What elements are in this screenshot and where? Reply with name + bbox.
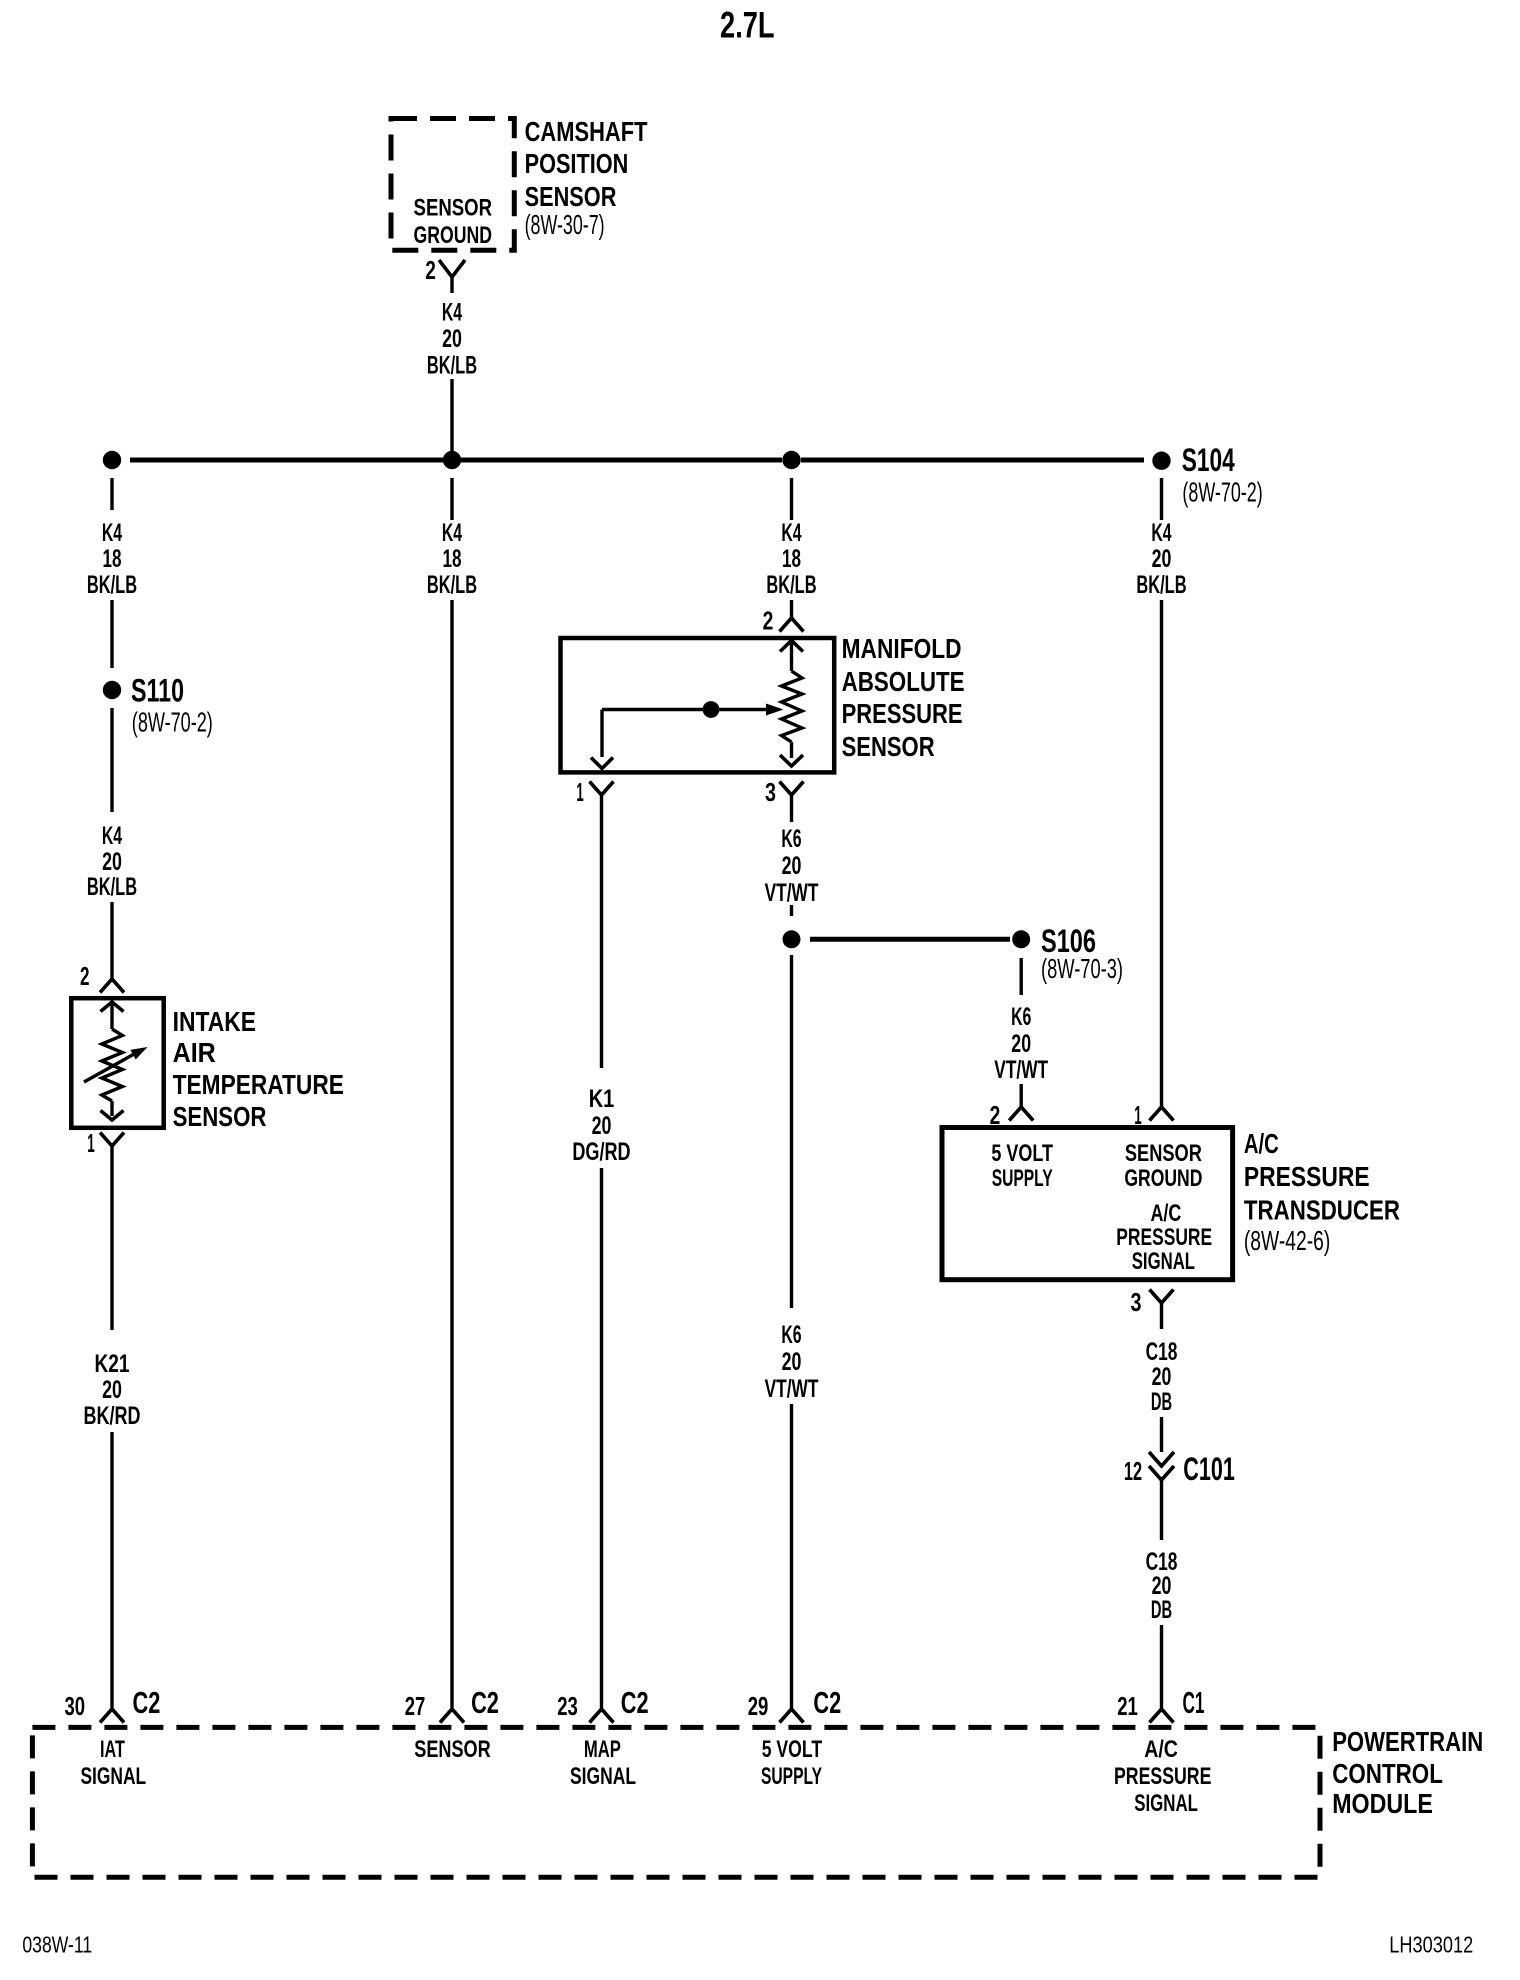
wire K21 from IAT pin 1 down — [110, 1162, 113, 1330]
wire to IAT pin 2 — [110, 902, 113, 979]
bus wire of splice S104 - segment 1 — [130, 458, 443, 463]
svg-text:K4: K4 — [1151, 520, 1171, 547]
svg-text:VT/WT: VT/WT — [765, 880, 819, 907]
junction dot S110 — [103, 681, 121, 699]
svg-text:30: 30 — [65, 1691, 86, 1721]
bus wire segment 2 — [461, 458, 782, 463]
svg-text:TEMPERATURE: TEMPERATURE — [173, 1069, 344, 1100]
svg-text:C18: C18 — [1146, 1339, 1178, 1366]
horizontal wire to splice S106 — [810, 937, 1010, 942]
wire below bus at x=112 — [110, 478, 113, 510]
svg-text:20: 20 — [1152, 546, 1172, 573]
svg-text:PRESSURE: PRESSURE — [842, 698, 963, 729]
svg-text:INTAKE: INTAKE — [173, 1006, 256, 1037]
svg-text:23: 23 — [557, 1691, 578, 1721]
svg-text:VT/WT: VT/WT — [994, 1057, 1048, 1084]
svg-text:SENSOR: SENSOR — [414, 196, 493, 222]
connector at A/C transducer pin 3 — [1150, 1290, 1174, 1304]
wire below bus at x=1161.5 — [1160, 478, 1163, 520]
svg-text:C2: C2 — [471, 1685, 499, 1720]
svg-text:C18: C18 — [1146, 1549, 1178, 1576]
svg-text:PRESSURE: PRESSURE — [1244, 1161, 1370, 1192]
wire segment to bus — [450, 379, 453, 460]
connector at MAP pin 2 — [780, 618, 804, 632]
svg-text:BK/LB: BK/LB — [87, 874, 137, 901]
junction dot on wiper — [703, 701, 720, 718]
svg-text:SIGNAL: SIGNAL — [570, 1764, 636, 1790]
svg-text:BK/LB: BK/LB — [427, 353, 477, 380]
svg-text:BK/RD: BK/RD — [84, 1403, 141, 1430]
connector at PCM pin 29 — [780, 1709, 804, 1723]
svg-text:DG/RD: DG/RD — [572, 1139, 630, 1166]
svg-text:20: 20 — [102, 1377, 122, 1404]
svg-text:20: 20 — [782, 853, 802, 880]
bus wire segment 3 — [801, 458, 1144, 463]
manifold absolute pressure sensor box — [561, 638, 835, 772]
svg-text:038W-11: 038W-11 — [22, 1932, 92, 1958]
svg-text:20: 20 — [442, 326, 462, 353]
svg-text:PRESSURE: PRESSURE — [1116, 1225, 1212, 1251]
svg-text:3: 3 — [1131, 1287, 1142, 1317]
wire to PCM pin 21 — [1160, 1625, 1163, 1709]
connector at MAP pin 1 — [590, 782, 614, 796]
svg-text:MANIFOLD: MANIFOLD — [842, 633, 962, 664]
junction dot at x=112 — [103, 451, 121, 469]
junction dot at x=791.5 — [782, 451, 800, 469]
junction dot S104 — [1152, 452, 1170, 470]
svg-text:SENSOR: SENSOR — [173, 1101, 267, 1132]
wire segment above junction — [790, 905, 793, 916]
svg-text:CAMSHAFT: CAMSHAFT — [525, 116, 648, 147]
svg-text:SUPPLY: SUPPLY — [761, 1764, 822, 1790]
svg-text:21: 21 — [1117, 1691, 1138, 1721]
svg-text:DB: DB — [1151, 1597, 1172, 1624]
svg-text:18: 18 — [782, 546, 801, 573]
svg-text:PRESSURE: PRESSURE — [1114, 1764, 1211, 1790]
wire C18 from transducer pin 3 — [1160, 1317, 1163, 1329]
svg-text:A/C: A/C — [1144, 1737, 1178, 1763]
svg-text:AIR: AIR — [173, 1037, 216, 1068]
connector at IAT pin 2 — [100, 979, 124, 993]
camshaft position sensor box (dashed) — [391, 119, 514, 251]
svg-text:(8W-42-6): (8W-42-6) — [1244, 1225, 1330, 1256]
thermistor symbol inside IAT box — [101, 1002, 124, 1012]
wiper leg down to MAP pin 1 — [600, 710, 603, 758]
svg-text:A/C: A/C — [1244, 1128, 1279, 1159]
svg-text:K4: K4 — [442, 300, 462, 327]
svg-text:DB: DB — [1151, 1389, 1172, 1416]
wire to PCM pin 30 — [110, 1432, 113, 1709]
svg-text:BK/LB: BK/LB — [427, 572, 477, 599]
powertrain control module box (dashed) — [32, 1727, 1320, 1877]
connector at PCM pin 23 — [590, 1709, 614, 1723]
svg-text:(8W-70-3): (8W-70-3) — [1041, 953, 1123, 984]
svg-text:K6: K6 — [781, 826, 801, 853]
svg-text:5 VOLT: 5 VOLT — [991, 1141, 1053, 1167]
wire K4 from camshaft pin 2 down to splice bus — [450, 277, 453, 293]
svg-text:CONTROL: CONTROL — [1332, 1758, 1443, 1789]
svg-text:BK/LB: BK/LB — [1136, 572, 1186, 599]
wire from bus to PCM pin 27 — [450, 600, 453, 1709]
svg-text:20: 20 — [592, 1113, 612, 1140]
svg-text:SIGNAL: SIGNAL — [1132, 1249, 1195, 1275]
A/C pressure transducer box — [942, 1128, 1233, 1280]
svg-text:K6: K6 — [781, 1322, 801, 1349]
svg-text:20: 20 — [102, 849, 122, 876]
svg-text:IAT: IAT — [100, 1737, 125, 1763]
svg-text:C1: C1 — [1183, 1685, 1205, 1720]
svg-text:(8W-70-2): (8W-70-2) — [132, 707, 213, 738]
svg-text:MODULE: MODULE — [1332, 1788, 1433, 1819]
svg-text:POSITION: POSITION — [525, 148, 629, 179]
svg-text:C101: C101 — [1183, 1451, 1235, 1487]
svg-text:GROUND: GROUND — [414, 223, 493, 249]
svg-text:C2: C2 — [621, 1685, 649, 1720]
svg-text:GROUND: GROUND — [1124, 1166, 1202, 1192]
svg-text:2: 2 — [80, 961, 90, 991]
junction dot at 5-volt branch — [783, 930, 801, 948]
svg-text:20: 20 — [1011, 1031, 1031, 1058]
svg-text:K4: K4 — [102, 520, 122, 547]
svg-text:C2: C2 — [133, 1685, 161, 1720]
wire to splice S110 — [110, 600, 113, 668]
wire to PCM pin 23 — [600, 1168, 603, 1709]
connector at PCM pin 30 — [100, 1709, 124, 1723]
svg-text:C2: C2 — [813, 1685, 841, 1720]
svg-text:ABSOLUTE: ABSOLUTE — [842, 666, 965, 697]
wire below 5-volt junction down — [790, 955, 793, 1308]
svg-text:3: 3 — [765, 777, 776, 807]
svg-text:1: 1 — [576, 777, 584, 807]
thermistor diagonal arrow — [84, 1054, 135, 1083]
svg-text:29: 29 — [748, 1691, 769, 1721]
svg-text:K1: K1 — [589, 1086, 615, 1113]
wire below S106 — [1020, 958, 1023, 995]
wire below bus at x=791.5 — [790, 478, 793, 520]
svg-text:K4: K4 — [442, 520, 462, 547]
wire K1 from MAP pin 1 down — [600, 811, 603, 1068]
wire below S110 — [110, 708, 113, 812]
svg-text:LH303012: LH303012 — [1389, 1932, 1473, 1958]
svg-text:S110: S110 — [131, 673, 184, 709]
connector at IAT pin 1 — [100, 1133, 124, 1147]
svg-text:SENSOR: SENSOR — [1125, 1141, 1202, 1167]
svg-text:TRANSDUCER: TRANSDUCER — [1244, 1195, 1400, 1226]
wire to PCM pin 29 — [790, 1404, 793, 1709]
svg-text:K4: K4 — [781, 520, 801, 547]
connector at camshaft pin 2 — [439, 260, 465, 277]
connector at PCM pin 27 — [440, 1709, 464, 1723]
svg-text:BK/LB: BK/LB — [87, 572, 137, 599]
svg-text:SENSOR: SENSOR — [842, 731, 935, 762]
svg-text:K4: K4 — [102, 823, 122, 850]
svg-text:2.7L: 2.7L — [720, 5, 775, 46]
svg-text:20: 20 — [1152, 1364, 1172, 1391]
in-line connector C101 — [1149, 1452, 1174, 1466]
wire down to A/C transducer pin 1 — [1160, 600, 1163, 1107]
svg-text:MAP: MAP — [584, 1737, 621, 1763]
svg-text:(8W-70-2): (8W-70-2) — [1182, 477, 1262, 508]
svg-text:K21: K21 — [95, 1351, 130, 1378]
potentiometer wiper arrow — [602, 708, 768, 711]
svg-text:SENSOR: SENSOR — [414, 1737, 490, 1763]
svg-text:SIGNAL: SIGNAL — [1134, 1791, 1198, 1817]
svg-text:1: 1 — [87, 1128, 95, 1158]
junction dot S106 — [1012, 930, 1030, 948]
svg-text:20: 20 — [782, 1349, 802, 1376]
svg-text:K6: K6 — [1011, 1004, 1031, 1031]
connector at A/C transducer pin 1 — [1150, 1107, 1174, 1121]
svg-text:(8W-30-7): (8W-30-7) — [525, 209, 605, 240]
junction dot at x=452 — [443, 451, 461, 469]
wire below bus at x=452 — [450, 478, 453, 520]
svg-text:27: 27 — [405, 1691, 426, 1721]
connector at PCM pin 21 — [1150, 1709, 1174, 1723]
svg-text:BK/LB: BK/LB — [766, 572, 816, 599]
wire below C101 — [1160, 1480, 1163, 1540]
wire down to MAP pin 2 — [790, 600, 793, 618]
svg-text:2: 2 — [763, 606, 774, 636]
svg-text:A/C: A/C — [1151, 1201, 1182, 1227]
svg-text:20: 20 — [1152, 1573, 1172, 1600]
svg-text:18: 18 — [443, 546, 462, 573]
wire to connector C101 — [1160, 1417, 1163, 1452]
svg-text:POWERTRAIN: POWERTRAIN — [1332, 1726, 1483, 1757]
svg-text:2: 2 — [425, 255, 436, 285]
wire K6 from MAP pin 3 down — [790, 811, 793, 822]
svg-text:18: 18 — [103, 546, 122, 573]
svg-text:SUPPLY: SUPPLY — [992, 1166, 1053, 1192]
potentiometer element inside MAP box — [780, 641, 803, 652]
svg-text:SIGNAL: SIGNAL — [80, 1764, 146, 1790]
svg-text:12: 12 — [1124, 1456, 1142, 1486]
intake air temperature sensor box — [71, 998, 163, 1128]
wire to A/C transducer pin 2 — [1020, 1084, 1023, 1107]
svg-text:SENSOR: SENSOR — [525, 181, 617, 212]
svg-text:VT/WT: VT/WT — [765, 1376, 819, 1403]
svg-text:5 VOLT: 5 VOLT — [762, 1737, 823, 1763]
connector at A/C transducer pin 2 — [1009, 1107, 1033, 1121]
svg-text:S104: S104 — [1182, 442, 1235, 478]
connector at MAP pin 3 — [780, 782, 804, 796]
